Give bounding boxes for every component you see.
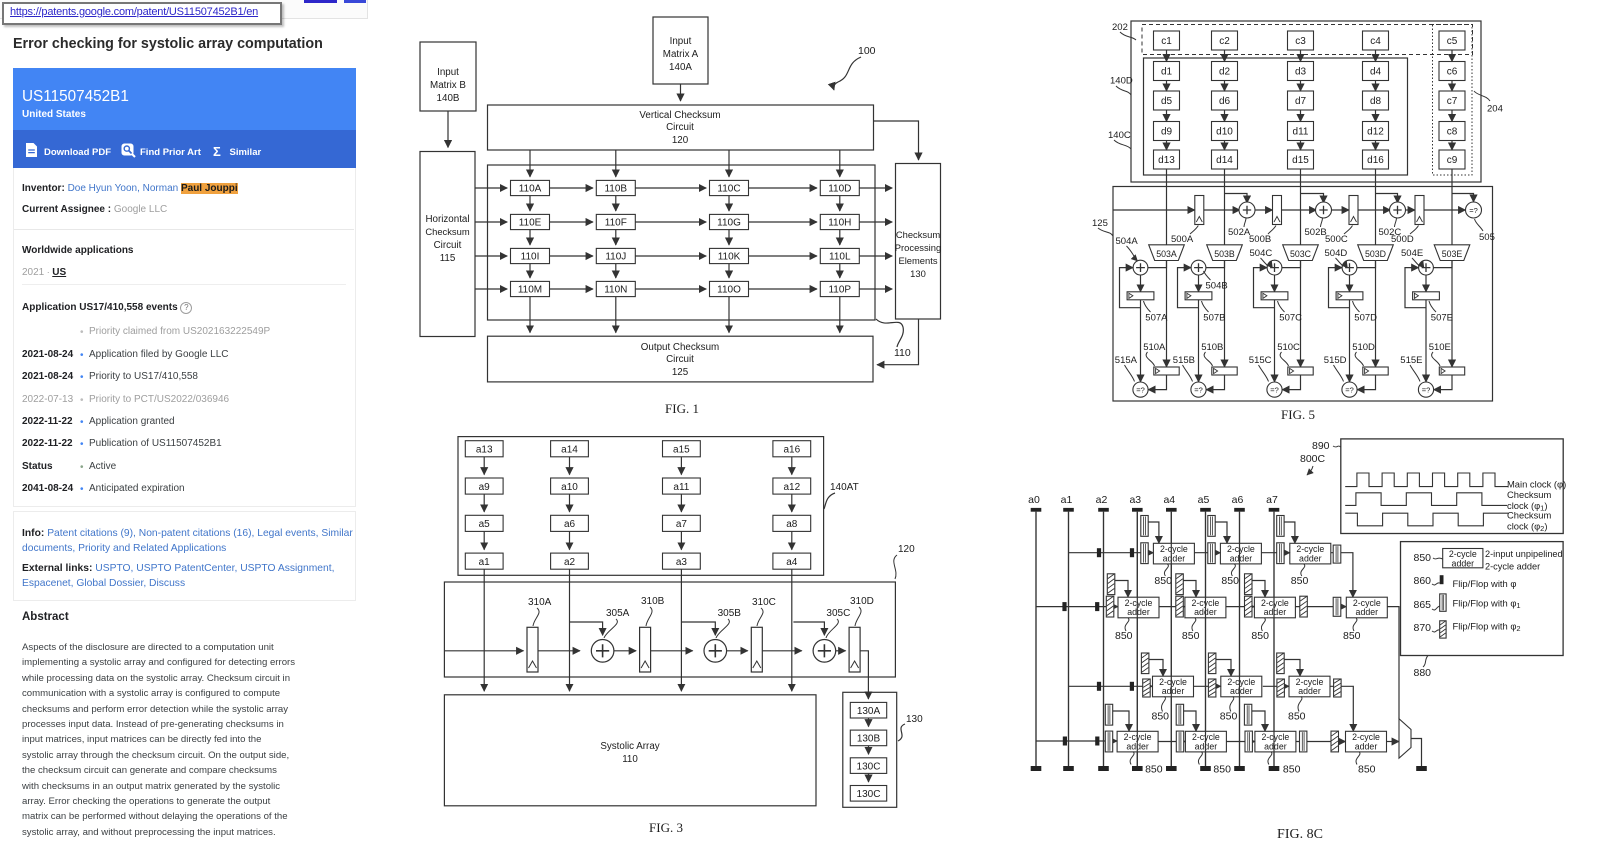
- cell d15: [1288, 150, 1314, 169]
- svg-text:110M: 110M: [518, 285, 542, 296]
- comparator 505: [1466, 202, 1482, 218]
- flipflop phi on row1 feed: [1097, 548, 1101, 557]
- hanging flipflop phi2 row2 adder1: [1107, 574, 1115, 595]
- box Systolic Array 110: [444, 695, 816, 806]
- svg-text:adder: adder: [1163, 553, 1186, 563]
- wire into row2 adder1 top: [1115, 581, 1128, 598]
- svg-text:a8: a8: [786, 519, 798, 530]
- svg-text:504B: 504B: [1206, 281, 1228, 292]
- svg-text:890: 890: [1312, 440, 1330, 452]
- cell d14: [1212, 150, 1238, 169]
- PE cell 110B: [596, 180, 635, 195]
- flipflop phi1 between row4 adder1-2: [1176, 731, 1183, 752]
- svg-text:120: 120: [898, 544, 915, 555]
- svg-text:510D: 510D: [1352, 342, 1375, 353]
- label 850 row4-1: [1130, 752, 1134, 765]
- PE cell 110K: [710, 248, 749, 263]
- sigma icon: [213, 144, 221, 159]
- wire 510E to comparator 515E: [1434, 375, 1452, 390]
- wire into row3 adder1 top: [1149, 660, 1163, 677]
- row4 feed wire from a0: [1036, 740, 1117, 742]
- svg-text:850: 850: [1220, 711, 1238, 723]
- svg-text:a15: a15: [673, 445, 690, 456]
- wires HCC to col1 cells: [475, 187, 507, 189]
- flipflop phi2 before row4 adder4: [1331, 731, 1339, 752]
- 2-cycle adder row2-1 850: [1118, 597, 1159, 618]
- cell d13: [1154, 150, 1180, 169]
- white info card: [13, 168, 356, 507]
- cell d6: [1212, 91, 1238, 110]
- svg-text:140A: 140A: [669, 62, 692, 73]
- svg-text:c9: c9: [1447, 155, 1458, 166]
- svg-text:=?: =?: [1136, 386, 1145, 395]
- svg-text:110L: 110L: [829, 252, 851, 263]
- a matrix column arrows: [483, 457, 485, 475]
- svg-text:a6: a6: [1232, 494, 1244, 506]
- svg-text:502B: 502B: [1305, 227, 1327, 238]
- svg-text:Checksum: Checksum: [896, 229, 940, 240]
- mux 503C: [1283, 245, 1319, 261]
- PE cell 110N: [596, 281, 635, 296]
- svg-text:110J: 110J: [605, 252, 626, 263]
- dark blue action bar: [13, 130, 356, 168]
- svg-text:d1: d1: [1161, 67, 1173, 78]
- cell a13: [465, 441, 503, 457]
- hanging flipflop phi1 row1 adder2: [1208, 516, 1215, 537]
- cell a12: [773, 478, 811, 494]
- feedback wire 507A to 504A: [1120, 268, 1141, 308]
- register 310A: [527, 627, 538, 672]
- page title: [13, 36, 323, 52]
- svg-text:Input: Input: [670, 36, 692, 47]
- hanging flipflop phi2 row2 adder2: [1176, 574, 1184, 595]
- PE cell 110L: [820, 248, 859, 263]
- flipflop phi1 before row1 adder1: [1141, 543, 1148, 564]
- wire mux to register 510A: [1166, 261, 1168, 368]
- svg-text:adder: adder: [1356, 607, 1379, 617]
- svg-text:850: 850: [1414, 552, 1432, 564]
- label 850 row1-3: [1301, 564, 1305, 576]
- flipflop phi on row1 feed 2: [1130, 548, 1134, 557]
- wire mux to adder 504D: [1357, 261, 1376, 268]
- cell c9: [1439, 150, 1465, 169]
- svg-text:a6: a6: [564, 519, 576, 530]
- a matrix cells: [465, 441, 810, 569]
- svg-text:adder: adder: [1264, 607, 1287, 617]
- wires VCC to row1 cells: [529, 150, 531, 177]
- flipflop phi2 after row2 adder3: [1300, 596, 1308, 617]
- svg-text:503B: 503B: [1214, 249, 1235, 259]
- svg-text:a4: a4: [1163, 494, 1175, 506]
- wires a1-a4 down to systolic array: [483, 569, 485, 691]
- box 130A: [850, 702, 886, 718]
- row3 wire adder2-adder3: [1263, 685, 1289, 687]
- svg-text:500C: 500C: [1325, 234, 1348, 245]
- svg-text:504D: 504D: [1325, 248, 1348, 259]
- label 850 row2-4: [1353, 618, 1357, 631]
- label 850 row2-2: [1192, 618, 1196, 631]
- comparator 515A: [1133, 382, 1148, 397]
- svg-text:507C: 507C: [1279, 313, 1302, 324]
- PE cell 110M: [511, 281, 550, 296]
- legend box 880: [1401, 542, 1564, 656]
- wire 510A to comparator 515A: [1148, 375, 1166, 390]
- svg-text:850: 850: [1283, 764, 1301, 776]
- 2-cycle adder row2-4 850: [1346, 597, 1387, 618]
- matrix column arrows: [1166, 50, 1168, 62]
- label 850 row1-2: [1231, 564, 1235, 576]
- main clock waveform: [1345, 473, 1508, 487]
- matrix output column wires: [1166, 169, 1168, 245]
- svg-text:a14: a14: [561, 445, 578, 456]
- svg-text:adder: adder: [1298, 686, 1321, 696]
- register 510D: [1363, 367, 1388, 375]
- info/links card: [13, 511, 356, 601]
- svg-text:515A: 515A: [1115, 355, 1138, 366]
- svg-text:850: 850: [1213, 764, 1231, 776]
- wire adder to register 507A: [1140, 275, 1142, 292]
- svg-text:115: 115: [440, 253, 456, 264]
- 2-cycle adder row3-2 850: [1221, 676, 1262, 697]
- svg-text:865: 865: [1414, 599, 1432, 611]
- wires row outputs to CPE: [859, 187, 892, 189]
- wire register 507E to comparator: [1425, 300, 1427, 382]
- 2-cycle adder row4-2 850: [1185, 731, 1226, 752]
- feedback wire 507E to 504E: [1405, 268, 1426, 308]
- wire Matrix B to Horizontal Checksum: [447, 111, 449, 148]
- PE cell 110E: [511, 214, 550, 229]
- PE cell 110F: [596, 214, 635, 229]
- PE cell 110D: [820, 180, 859, 195]
- svg-text:a1: a1: [1061, 494, 1073, 506]
- wire into row4 adder1 top: [1113, 711, 1129, 731]
- svg-text:adder: adder: [1127, 607, 1150, 617]
- flipflop phi2 between row3 adder1-2: [1208, 679, 1216, 697]
- box Output Checksum Circuit 125: [488, 336, 874, 382]
- svg-text:310C: 310C: [752, 597, 776, 608]
- label 850 row2-3: [1261, 618, 1265, 631]
- wire into row1 adder2 top: [1215, 522, 1227, 543]
- cell d10: [1212, 122, 1238, 141]
- svg-text:c4: c4: [1370, 36, 1381, 47]
- flipflop phi2 before row2 adder1: [1106, 596, 1114, 617]
- svg-text:504E: 504E: [1401, 248, 1423, 259]
- label leader squiggles: [533, 607, 861, 638]
- wire mux to adder 504E: [1433, 261, 1452, 268]
- PE cell 110H: [820, 214, 859, 229]
- wire mux to register 510B: [1224, 261, 1226, 368]
- svg-text:305B: 305B: [718, 608, 742, 619]
- svg-text:110: 110: [622, 754, 638, 765]
- wire adder to register 507C: [1274, 275, 1276, 292]
- label 850 row3-3: [1298, 696, 1302, 711]
- svg-text:110O: 110O: [717, 285, 741, 296]
- mux 503E: [1434, 245, 1470, 261]
- hanging flipflop phi1 row1 adder1: [1141, 516, 1148, 537]
- svg-text:Matrix B: Matrix B: [430, 80, 466, 91]
- label 880: [1423, 656, 1428, 668]
- svg-text:Circuit: Circuit: [434, 240, 462, 251]
- wire register 507D to comparator: [1349, 300, 1351, 382]
- label 850 row4-3: [1268, 752, 1272, 765]
- svg-text:a3: a3: [676, 557, 688, 568]
- abstract: [22, 611, 69, 623]
- svg-text:850: 850: [1358, 764, 1376, 776]
- grid horizontal wires: [550, 187, 594, 189]
- hanging flipflop phi1 row4 adder2: [1176, 704, 1183, 725]
- register 507D: [1336, 292, 1363, 300]
- flipflop phi on row3 feed: [1097, 682, 1101, 691]
- svg-text:a10: a10: [561, 482, 578, 493]
- wire into row1 adder1 top: [1148, 522, 1159, 543]
- wire 510B to comparator 515B: [1206, 375, 1224, 390]
- adder 504C: [1267, 260, 1282, 275]
- URL tooltip box: [2, 2, 282, 25]
- wire mux to adder 504B: [1206, 261, 1225, 268]
- svg-text:adder: adder: [1355, 741, 1378, 751]
- cell a4: [773, 553, 811, 569]
- svg-text:130: 130: [906, 714, 923, 725]
- svg-text:a2: a2: [1096, 494, 1108, 506]
- comparator 515C: [1267, 382, 1282, 397]
- cell a6: [551, 515, 589, 531]
- wire into row2 adder3 top: [1252, 581, 1265, 598]
- svg-text:d12: d12: [1367, 127, 1384, 138]
- cell a7: [663, 515, 701, 531]
- 2-cycle adder row2-2 850: [1185, 597, 1226, 618]
- label 850 row4-4: [1356, 752, 1360, 765]
- wires col outputs to Output Checksum: [529, 297, 531, 333]
- dashed rect 202 (c-row): [1142, 25, 1473, 55]
- mux 503A: [1149, 245, 1185, 261]
- wire 510C to comparator 515C: [1282, 375, 1300, 390]
- row1 wire adder1-adder2: [1194, 552, 1220, 554]
- svg-text:Input: Input: [437, 67, 459, 78]
- wire into row4 adder2 top: [1184, 711, 1196, 731]
- svg-text:507A: 507A: [1145, 313, 1168, 324]
- svg-text:130A: 130A: [857, 706, 881, 717]
- row3 feed wire from a1: [1069, 685, 1153, 687]
- svg-text:502C: 502C: [1379, 227, 1402, 238]
- svg-text:850: 850: [1115, 630, 1133, 642]
- wire into row3 adder2 top: [1216, 660, 1231, 677]
- register 310B: [640, 627, 651, 672]
- svg-text:=?: =?: [1194, 386, 1203, 395]
- mux output wire: [1411, 739, 1422, 767]
- svg-text:Matrix A: Matrix A: [663, 49, 699, 60]
- svg-text:=?: =?: [1469, 206, 1478, 215]
- svg-text:125: 125: [672, 367, 689, 378]
- svg-text:FIG. 3: FIG. 3: [649, 820, 683, 835]
- svg-text:Checksum: Checksum: [425, 226, 469, 237]
- svg-text:503A: 503A: [1156, 249, 1177, 259]
- svg-text:110A: 110A: [519, 184, 542, 195]
- box Checksum Processing Elements 130: [896, 164, 941, 320]
- wire register 507B to comparator: [1198, 300, 1200, 382]
- svg-text:110I: 110I: [521, 252, 540, 263]
- 2-cycle adder row4-4 850: [1346, 731, 1387, 752]
- adder 502B: [1316, 202, 1332, 218]
- svg-text:800C: 800C: [1300, 453, 1326, 465]
- svg-text:130: 130: [910, 268, 926, 279]
- checksum clock phi1 waveform: [1345, 493, 1507, 506]
- timeline rows: [80, 327, 84, 338]
- timing diagram box 890: [1341, 439, 1563, 534]
- svg-text:507E: 507E: [1431, 313, 1453, 324]
- inner rect (d matrix): [1144, 58, 1408, 175]
- svg-text:125: 125: [1092, 218, 1108, 229]
- svg-text:515B: 515B: [1173, 355, 1195, 366]
- svg-text:504C: 504C: [1250, 248, 1273, 259]
- label 850 row4-2: [1198, 752, 1202, 765]
- cell c7: [1439, 91, 1465, 110]
- wire mux to adder 504C: [1282, 261, 1301, 268]
- 2-cycle adder row1-1 850: [1153, 543, 1194, 564]
- PE cell 110J: [596, 248, 635, 263]
- svg-text:204: 204: [1487, 104, 1503, 115]
- wire VCC right to CPE top: [874, 121, 919, 160]
- wire 510D to comparator 515D: [1357, 375, 1375, 390]
- flipflop phi1 between row4 adder2-3: [1245, 731, 1252, 752]
- flipflop phi1 between row1 adder2-3: [1277, 543, 1284, 564]
- svg-text:a1: a1: [479, 557, 491, 568]
- svg-text:Horizontal: Horizontal: [425, 214, 469, 225]
- svg-text:adder: adder: [1299, 553, 1322, 563]
- svg-text:a9: a9: [479, 482, 491, 493]
- svg-text:a5: a5: [1198, 494, 1210, 506]
- adder 305C: [813, 640, 836, 663]
- register 510B: [1212, 367, 1237, 375]
- svg-text:2-cycle adder: 2-cycle adder: [1485, 562, 1540, 572]
- svg-text:507D: 507D: [1354, 313, 1377, 324]
- component labels 310A-D 305A-C: [528, 596, 874, 619]
- flipflop phi2 after row3 adder3: [1334, 679, 1342, 697]
- svg-text:d6: d6: [1219, 96, 1231, 107]
- svg-text:Systolic Array: Systolic Array: [600, 741, 659, 752]
- register 507A: [1127, 292, 1154, 300]
- svg-text:Flip/Flop with φ1: Flip/Flop with φ1: [1453, 598, 1521, 611]
- register 507B: [1185, 292, 1212, 300]
- svg-text:110F: 110F: [605, 218, 627, 229]
- svg-text:110E: 110E: [519, 218, 542, 229]
- svg-text:d10: d10: [1216, 127, 1233, 138]
- label 850 row1-1: [1164, 564, 1168, 576]
- svg-text:510C: 510C: [1277, 342, 1300, 353]
- svg-text:110K: 110K: [718, 252, 741, 263]
- wire CPE bottom to Output right: [877, 319, 919, 365]
- cell a5: [465, 515, 503, 531]
- box Vertical Checksum Circuit 120: [488, 105, 874, 150]
- svg-text:130C: 130C: [857, 761, 881, 772]
- branch wires into adders: [570, 622, 603, 635]
- svg-text:850: 850: [1145, 764, 1163, 776]
- row4 wire adder2-adder3: [1226, 741, 1255, 743]
- svg-text:110C: 110C: [717, 184, 740, 195]
- svg-text:503D: 503D: [1365, 249, 1386, 259]
- dotted rect 204 (c column): [1433, 25, 1473, 176]
- label 850 row3-1: [1162, 696, 1166, 711]
- row4 wire adder3-adder4: [1296, 741, 1346, 743]
- row2 wire adder2-adder3: [1226, 606, 1255, 608]
- svg-text:Circuit: Circuit: [666, 122, 694, 133]
- cell c4: [1363, 31, 1389, 50]
- PE cell 110C: [710, 180, 749, 195]
- wire adder to register 507E: [1425, 275, 1427, 292]
- cell a11: [663, 478, 701, 494]
- adder 504E: [1419, 260, 1434, 275]
- adder 504D: [1342, 260, 1357, 275]
- svg-text:510B: 510B: [1201, 342, 1223, 353]
- svg-text:305C: 305C: [826, 608, 850, 619]
- svg-text:310A: 310A: [528, 597, 552, 608]
- svg-text:310B: 310B: [641, 596, 665, 607]
- output mux: [1399, 719, 1411, 758]
- 2-cycle adder row1-2 850: [1220, 543, 1261, 564]
- svg-text:502A: 502A: [1228, 227, 1251, 238]
- flipflop phi2 between row2 adder2-3: [1245, 596, 1253, 617]
- svg-text:850: 850: [1221, 575, 1239, 587]
- row1 wire adder3 out to row2 adder4: [1331, 553, 1353, 598]
- box 130B: [850, 730, 886, 746]
- svg-text:a16: a16: [783, 445, 800, 456]
- adder 502A: [1239, 202, 1255, 218]
- svg-text:Circuit: Circuit: [666, 354, 694, 365]
- 2-cycle adder row3-3 850: [1289, 676, 1330, 697]
- svg-text:870: 870: [1414, 622, 1432, 634]
- svg-text:120: 120: [672, 135, 689, 146]
- svg-text:Output Checksum: Output Checksum: [641, 342, 719, 353]
- cell c6: [1439, 62, 1465, 81]
- svg-text:500A: 500A: [1171, 234, 1194, 245]
- svg-text:140AT: 140AT: [830, 482, 859, 493]
- hanging flipflop phi2 row3 adder2: [1208, 653, 1216, 674]
- bus overlay wires: [1035, 512, 1037, 766]
- svg-text:=?: =?: [1345, 386, 1354, 395]
- register 500D: [1415, 196, 1424, 225]
- cell a9: [465, 478, 503, 494]
- 2-cycle adder row3-1 850: [1153, 676, 1194, 697]
- flipflop phi2 before row3 adder1: [1143, 679, 1151, 697]
- wire adder to register 507D: [1349, 275, 1351, 292]
- cell d1: [1154, 62, 1180, 81]
- row1 feed wire from a1: [1069, 552, 1154, 554]
- outer rect 140AT: [458, 437, 824, 576]
- flipflop phi on row4 feed: [1063, 737, 1067, 746]
- register 310C: [751, 627, 762, 672]
- wire mux to register 510E: [1451, 261, 1453, 368]
- branch wires to checksum adders: [1225, 194, 1248, 204]
- svg-text:510A: 510A: [1143, 342, 1166, 353]
- svg-text:515D: 515D: [1324, 355, 1347, 366]
- row4 wire adder1-adder2: [1158, 741, 1185, 743]
- hanging flipflop phi1 row1 adder3: [1277, 516, 1284, 537]
- hanging flipflop phi1 row4 adder3: [1244, 704, 1251, 725]
- svg-text:d3: d3: [1295, 67, 1307, 78]
- svg-text:305A: 305A: [606, 608, 630, 619]
- svg-text:a11: a11: [673, 482, 689, 493]
- adder 504A: [1133, 260, 1148, 275]
- adder 305A: [591, 640, 614, 663]
- cell a16: [773, 441, 811, 457]
- wire adder to register 507B: [1198, 275, 1200, 292]
- svg-text:d11: d11: [1293, 127, 1309, 138]
- svg-text:c6: c6: [1447, 67, 1458, 78]
- cell a14: [551, 441, 589, 457]
- 2-cycle adder row4-1 850: [1117, 731, 1158, 752]
- svg-text:adder: adder: [1230, 553, 1253, 563]
- row3 wire adder3 out to row4 adder4: [1330, 686, 1353, 731]
- grid vertical wires: [529, 196, 531, 211]
